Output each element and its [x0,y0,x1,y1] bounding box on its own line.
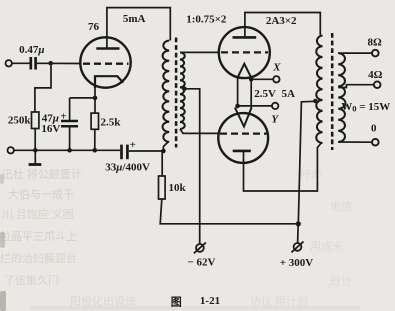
svg-text:协议 用计划: 协议 用计划 [250,294,308,308]
wire 8ohm tap [338,52,372,54]
wire [12,62,30,64]
svg-text:76: 76 [88,21,100,33]
power terminal -62V [196,244,204,252]
wire cathode branch [70,97,96,99]
svg-text:1:0.75×2: 1:0.75×2 [186,14,227,26]
tube V3 2A3 bottom envelope [218,113,268,163]
tube V1 76 envelope [80,37,130,87]
svg-text:阳极化出设法: 阳极化出设法 [70,294,136,308]
wire T1 primary bottom [163,142,168,151]
wire [160,199,298,224]
node [93,148,98,153]
transformer T2 primary [316,36,322,144]
tube V3 plate [233,150,251,153]
capacitor C 0.47u [29,57,32,70]
wire [161,151,163,176]
wire grid of V1 [37,62,82,64]
wire 4ohm tap [338,85,373,88]
tube V1 plate [96,47,119,50]
svg-text:X: X [272,61,281,73]
wire V2 plate to OPT [245,13,320,38]
svg-text:5mA: 5mA [123,13,146,25]
svg-text:10k: 10k [169,182,187,194]
svg-text:0: 0 [371,123,377,135]
node +300V junction [296,221,301,226]
svg-text:250k: 250k [8,114,32,126]
svg-text:4Ω: 4Ω [368,69,383,81]
resistor 250k [32,112,39,129]
node T2 primary center tap [313,99,318,104]
wire 0 tap [338,141,372,143]
svg-text:1-21: 1-21 [200,295,220,307]
node X tap [249,77,254,82]
svg-text:用成米: 用成米 [310,240,343,253]
node B+ driver [161,149,166,154]
transformer T1 primary [163,41,170,143]
svg-text:大伯与一成干: 大伯与一成干 [8,187,74,201]
tube V3 filament [235,108,252,127]
node [67,148,72,153]
input terminal bottom [8,147,14,153]
svg-text:图: 图 [171,296,182,309]
node T1 center tap [182,87,187,92]
svg-text:电值: 电值 [330,200,352,213]
wire [94,129,96,150]
wire ground rail [14,149,120,151]
svg-text:− 62V: − 62V [188,257,216,269]
resistor 2.5k [91,113,98,129]
svg-text:0.47μ: 0.47μ [19,44,44,56]
svg-text:烂的洽妇臊题台: 烂的洽妇臊题台 [0,251,77,265]
svg-text:2.5k: 2.5k [101,116,122,128]
wire to 250k [35,63,51,112]
wire tap to -62V [184,89,199,244]
resistor 10k [159,176,166,199]
wire secondary top to grid V2 [180,51,219,53]
svg-text:了伍策久门: 了伍策久门 [4,273,59,287]
terminal X [273,76,279,82]
wire to Y [238,105,272,107]
terminal 4ohm [374,81,381,88]
ground [34,150,36,164]
wire [34,129,36,151]
transformer T2 secondary [338,53,345,142]
wire V3 plate to OPT bottom [244,143,322,191]
svg-text:16V: 16V [41,123,60,135]
wire [69,127,71,150]
transformer T2 core [331,33,334,150]
tube V1 cathode [95,76,123,88]
svg-text:+: + [60,111,66,123]
svg-text:33μ/400V: 33μ/400V [105,162,150,174]
svg-text:呼命: 呼命 [300,167,322,181]
wire plate to top [107,8,170,49]
svg-text:W0 = 15W: W0 = 15W [341,101,390,114]
node cathode [93,96,98,101]
wire [129,150,164,152]
wire filament right [250,78,252,109]
wire [69,98,71,120]
terminal 0 [372,139,379,146]
svg-text:迅杜 将公颇置计: 迅杜 将公颇置计 [2,167,82,181]
svg-text:拉晶平三爪斗上: 拉晶平三爪斗上 [0,229,77,243]
wire tap to +300V [298,101,315,224]
terminal Y [272,103,278,109]
node grid junction [48,61,53,66]
tube V1 grid [83,63,129,65]
node Y tap [235,104,240,109]
wire filament left [237,78,239,109]
wire [297,224,300,244]
capacitor 47u/16V [61,120,78,123]
tube V2 plate [233,36,257,39]
input terminal top [6,60,12,66]
wire to X [251,78,273,80]
tube V2 grid [221,51,268,53]
svg-text:班计: 班计 [330,275,352,288]
svg-text:2.5V 5A: 2.5V 5A [254,88,295,100]
capacitor 33u/400V [120,145,123,160]
transformer T1 core [175,38,178,148]
svg-text:8Ω: 8Ω [368,36,383,48]
transformer T1 secondary [180,53,185,130]
svg-text:2A3×2: 2A3×2 [266,15,297,27]
tube V3 grid [220,132,267,134]
wire secondary bottom to grid V3 [180,129,219,133]
power terminal +300V [294,243,302,251]
tube V2 2A3 top envelope [219,27,270,78]
terminal 8ohm [372,50,379,57]
node [33,148,38,153]
wire [94,77,96,113]
tube V2 filament [238,64,252,78]
svg-text:+ 300V: + 300V [280,257,314,269]
svg-text:+: + [130,139,136,151]
svg-text:川,且饱应 义图: 川,且饱应 义图 [2,207,74,221]
